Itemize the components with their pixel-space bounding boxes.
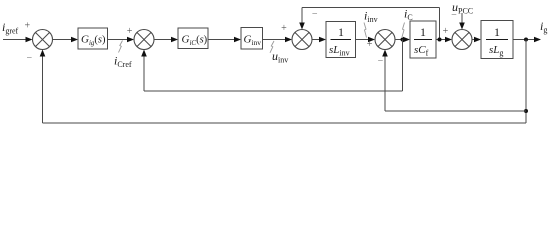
wire capacitor-voltage feedback (top loop) [299,8,439,40]
summing junction 5 [452,30,472,50]
svg-text:1: 1 [338,25,344,39]
svg-text:+: + [24,21,30,32]
plus sign junction 5 left input [443,26,449,37]
wire u_PCC into junction 5 [459,13,465,30]
svg-text:−: − [312,9,318,20]
wire junction 4 to block 1/sC_f with node [395,37,410,43]
wire junction 1 to block G_ig [53,37,79,43]
summing junction 1 [33,30,53,50]
leader zigzag for i_Cref label [119,41,123,53]
wire junction 3 to block 1/sL_inv [312,37,326,43]
block G_iC(s) [178,28,208,49]
leader zigzag for i_C label [402,23,405,38]
wire output i_g with node [513,37,541,43]
wire block G_ig to summing junction 2 [108,37,135,43]
node label u_PCC [452,0,473,16]
minus sign junction 3 top input [312,9,318,20]
wire block G_iC to block G_inv [208,37,241,43]
summing junction 2 [134,30,154,50]
block G_inv [241,28,263,50]
plus sign junction 4 left input [367,39,373,50]
block 1/(sL_inv) [326,22,356,58]
wire junction 5 to block 1/sL_g [472,37,481,43]
wire input to summing junction 1 [3,37,33,43]
summing junction 3 [292,30,312,50]
minus sign junction 5 top input [451,10,457,21]
block G_ig(s) [78,28,108,49]
leader zigzag for i_inv label [364,23,367,38]
svg-text:−: − [451,10,457,21]
wire grid-current feedback to junction 1 (outer bottom loop) [40,40,526,124]
svg-text:Gig(s): Gig(s) [81,34,106,48]
svg-text:−: − [26,53,32,64]
node label i_inv [364,9,378,25]
wire capacitor-current feedback to junction 2 (inner bottom loop) [141,40,402,92]
svg-text:+: + [367,39,373,50]
svg-text:+: + [443,26,449,37]
svg-text:+: + [281,23,287,34]
node label i_g [540,19,547,35]
minus sign junction 1 bottom input [26,53,32,64]
node i_gref input label [2,20,19,36]
summing junction 4 [375,30,395,50]
node on grid-current feedback (junction dot) [524,109,528,113]
node label i_C [404,7,413,23]
node label u_inv [272,49,288,65]
wire junction 2 to block G_iC [154,37,178,43]
plus sign junction 3 left input [281,23,287,34]
block 1/(sL_g) [481,21,513,59]
svg-text:1: 1 [494,25,500,39]
wire grid-current feedback to junction 4 (middle bottom loop) [382,50,526,112]
svg-text:+: + [127,26,133,37]
svg-text:1: 1 [420,25,426,39]
wire block 1/sL_inv to summing junction 4 [356,37,376,43]
wire block 1/sC_f to summing junction 5 with node [436,37,452,43]
plus sign junction 1 left input [24,21,30,32]
block 1/(sC_f) [410,21,436,58]
plus sign junction 2 left input [127,26,133,37]
leader zigzag for u_inv label [270,41,274,53]
minus sign junction 4 bottom input [378,56,384,67]
wire block G_inv to summing junction 3 [263,37,293,43]
svg-text:−: − [378,56,384,67]
node label i_Cref [114,54,132,70]
